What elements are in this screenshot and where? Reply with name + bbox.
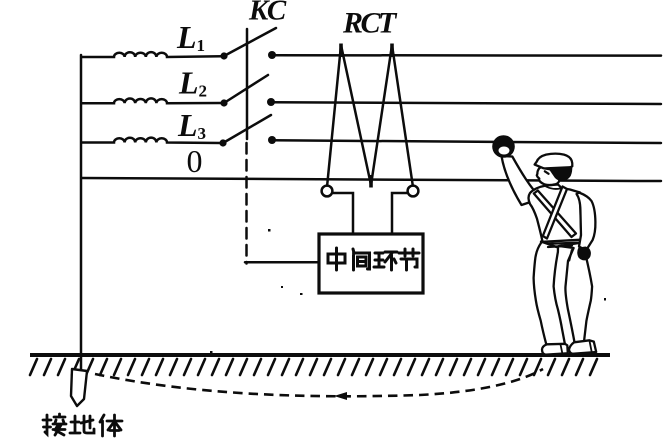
person: eye xyxy=(545,171,549,174)
switch blade KC pole 2 xyxy=(224,75,268,103)
person: harness strap right-shoulder to left-waist xyxy=(543,187,567,239)
char 环 xyxy=(374,252,397,270)
person: harness strap left-shoulder to right-waist xyxy=(534,191,576,238)
char 地 xyxy=(70,416,94,433)
svg-text:L2: L2 xyxy=(178,65,207,101)
inductor winding L1 (transformer coil) xyxy=(82,52,222,57)
switch blade KC pole 3 xyxy=(223,115,271,143)
wire: dashed earth-return current path with arrow xyxy=(95,369,543,400)
wire: horizontal trip wire into box xyxy=(245,261,320,264)
person: jacket hem xyxy=(543,240,579,247)
person: right shoe xyxy=(569,340,596,354)
person: head and face xyxy=(537,165,560,185)
char 中 xyxy=(328,248,345,270)
node: L1 switch pivot dot xyxy=(220,52,227,59)
wire: L1 line to right xyxy=(272,54,661,57)
person: trouser crotch line xyxy=(569,250,572,261)
person: collar xyxy=(546,187,560,189)
wire: L2 line to right xyxy=(271,102,661,104)
person: right shoe heel line xyxy=(590,341,592,353)
wire: left vertical bus (transformer star point to earth) xyxy=(80,55,83,371)
ground hatching xyxy=(30,359,597,375)
wire: L3 line to right xyxy=(272,140,661,143)
person: torso xyxy=(529,185,583,245)
node: L3 right contact dot xyxy=(268,136,276,144)
person: hard hat xyxy=(535,154,573,170)
svg-text:RCT: RCT xyxy=(342,7,398,40)
person: right hand xyxy=(577,247,591,261)
person: hair under hat xyxy=(545,166,572,181)
wire: trip linkage dashed to intermediate box xyxy=(245,143,248,264)
current transformer RCT zigzag core xyxy=(327,45,413,187)
char 接 xyxy=(43,414,66,435)
person: left shoe xyxy=(542,344,568,355)
box: intermediate link 中间环节 xyxy=(319,234,423,293)
node: L1 right contact dot xyxy=(268,51,276,59)
svg-text:KC: KC xyxy=(248,0,287,27)
person touching the line xyxy=(492,135,596,354)
node: L3 switch pivot dot xyxy=(219,139,226,146)
wire: RCT left output to box xyxy=(333,193,353,234)
wire: RCT right output to box xyxy=(392,193,407,234)
ground surface line xyxy=(30,353,610,357)
char 间 xyxy=(353,249,370,270)
terminal: RCT right output circle xyxy=(408,186,419,197)
svg-text:L3: L3 xyxy=(177,107,206,143)
person: hanging right arm xyxy=(577,193,596,251)
svg-text:0: 0 xyxy=(187,143,203,179)
person: raised arm xyxy=(502,156,542,205)
earth electrode 接地体 xyxy=(71,369,87,406)
label 接地体 (earth electrode) xyxy=(43,414,122,436)
wire: neutral line 0 xyxy=(82,178,661,181)
scan specks xyxy=(210,229,606,353)
char 节 xyxy=(399,249,419,270)
char 体 xyxy=(100,415,122,436)
inductor winding L2 (transformer coil) xyxy=(82,98,222,103)
person: left leg xyxy=(534,242,565,345)
person: fist gripping wire xyxy=(492,135,515,158)
inductor winding L3 (transformer coil) xyxy=(82,138,221,143)
node: L2 switch pivot dot xyxy=(220,99,227,106)
switch KC linkage bar (solid part) xyxy=(246,29,249,139)
RCT apex stub right xyxy=(390,44,394,58)
person: left shoe heel line xyxy=(561,345,563,355)
svg-text:L1: L1 xyxy=(176,19,205,55)
terminal: RCT left output circle xyxy=(322,186,333,197)
node: L2 right contact dot xyxy=(267,98,275,106)
label 中间环节 (intermediate link) inside box xyxy=(328,248,419,270)
RCT apex stub left xyxy=(339,44,343,58)
RCT valley stub xyxy=(369,175,373,188)
switch blade KC pole 1 xyxy=(224,28,276,56)
person: right leg xyxy=(559,243,592,346)
